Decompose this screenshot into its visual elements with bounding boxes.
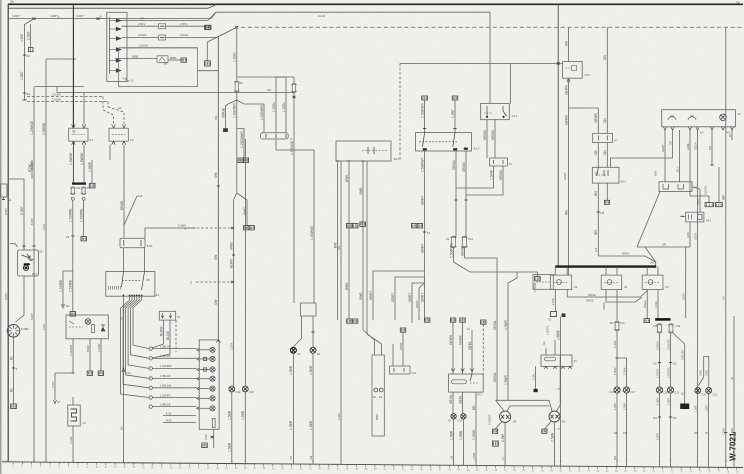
wire BWS chain <box>348 161 350 319</box>
lamp C20 <box>695 388 701 394</box>
hazard warning unit box <box>66 315 108 339</box>
wire below F11b <box>616 331 618 387</box>
wire below generator <box>13 337 15 404</box>
dashed wire S.WS <box>196 281 231 283</box>
connector top 425 <box>422 96 428 100</box>
wire 2.5SW dashed pair <box>27 96 103 98</box>
fuse 8A <box>235 81 238 92</box>
SWGE link wires <box>567 290 647 298</box>
lamp C21 <box>706 388 712 394</box>
lighting switch box S <box>106 272 155 297</box>
wire branch 59 <box>46 58 76 60</box>
relay K2 <box>109 128 128 141</box>
junction box X12 <box>390 366 411 374</box>
wire bundle 7 <box>121 296 149 397</box>
relay K5 terminals <box>646 267 648 276</box>
aux lines right <box>163 415 196 417</box>
switch box S4.2 <box>592 167 619 183</box>
dashed vertical 176 <box>175 320 177 352</box>
junction K2b <box>423 231 426 233</box>
connector 247 <box>244 226 249 230</box>
partial relay left <box>533 275 553 290</box>
wire 1.5WF stub <box>91 160 93 183</box>
3-terminal connector box <box>261 133 289 139</box>
relay terminals K2 <box>112 125 116 129</box>
terminal 537 <box>535 277 541 281</box>
wire 1.5WBL long <box>31 160 33 179</box>
cluster bottom wire <box>213 429 215 448</box>
connector pair 349 <box>346 224 352 228</box>
fuse F16 <box>669 324 673 333</box>
wire lamp C13 <box>245 139 247 386</box>
wire alternator top <box>8 179 24 250</box>
wire 1.5SWBL pair <box>72 200 74 312</box>
relay K4 <box>601 275 622 289</box>
hazard internals <box>69 326 83 328</box>
wire 456 to fuse <box>455 151 457 188</box>
wire K1 down pair <box>72 141 74 183</box>
wire 1.5RT drop K2 <box>25 19 35 100</box>
park lamps <box>374 388 378 392</box>
wire long K15 vertical <box>123 296 125 462</box>
relay K3 <box>551 275 572 289</box>
dark connector 535 <box>534 389 538 392</box>
relay box KT1 <box>449 374 484 392</box>
wire 525 GRSA <box>465 258 498 400</box>
fuse F9 <box>452 237 456 248</box>
ignition switch box <box>18 250 39 276</box>
wires circles to cluster <box>152 348 196 350</box>
feeder SR <box>637 192 660 248</box>
connector pair 415 <box>411 224 416 228</box>
resistor box R13 <box>686 212 704 222</box>
wire 476 down <box>475 392 477 462</box>
junction node A <box>235 26 238 28</box>
switch internals <box>122 280 142 282</box>
wires into relay KT1 <box>452 322 454 374</box>
node 30 top bus border <box>8 3 743 5</box>
thick bar right <box>655 318 670 321</box>
wire 508 down to beam bus <box>508 272 517 400</box>
fuse F11b <box>616 316 618 321</box>
connector block K7-6 <box>120 238 145 248</box>
relay pair box x2 <box>659 182 692 192</box>
bottom ruler line <box>2 462 743 468</box>
branch diagonal 247 <box>237 193 247 225</box>
lamp C18 <box>656 387 662 393</box>
wire 80BL <box>115 58 157 60</box>
wire SWB 363 <box>362 161 364 330</box>
wire 1.5GN taps top <box>237 76 294 78</box>
scan noise texture <box>0 0 1 1</box>
cluster inline marks <box>204 357 207 360</box>
wire BL into x2 <box>679 130 681 182</box>
headlamp right E5 <box>549 400 552 411</box>
fuse 8A second <box>292 84 295 93</box>
lamp C17 <box>623 387 629 393</box>
wire K1 coil feed <box>83 93 85 125</box>
wire 1.5RT <box>454 100 456 133</box>
wire 80BL right <box>168 59 181 61</box>
relay terminals K1 <box>72 125 76 129</box>
corner mark J2 <box>127 78 130 81</box>
wires below right beam <box>545 421 552 429</box>
terminal 80BL <box>181 58 187 62</box>
cluster resistor <box>212 419 215 428</box>
connector top 403 <box>400 328 405 332</box>
left border wire <box>7 4 9 462</box>
switch terminals bottom <box>123 295 143 297</box>
resistor dark <box>680 404 689 410</box>
junction ticks on 218 <box>217 185 220 187</box>
connector X6 <box>81 237 86 241</box>
wire lamp C10 <box>233 385 235 387</box>
wire GN tap <box>198 70 219 72</box>
wires below switch <box>424 151 426 277</box>
ruler ticks <box>13 462 737 470</box>
wire to flasher <box>55 372 73 374</box>
feeder WSR1 <box>598 256 655 267</box>
connector hazard 101 <box>98 371 103 375</box>
wire 1.5WS right <box>145 228 196 238</box>
wires from X1 box top <box>545 348 547 355</box>
lamp C16 <box>614 387 620 393</box>
connector 32 <box>29 48 34 52</box>
connector 58 <box>205 61 211 66</box>
connector bottom cluster <box>202 443 207 448</box>
wire below flasher <box>72 426 74 462</box>
inline connector 2.5GN <box>159 35 166 40</box>
wire to park lamp box <box>363 330 375 355</box>
wire below fuse <box>236 92 238 100</box>
wire SW vertical to cluster <box>217 37 219 341</box>
fan GRRT <box>373 271 425 320</box>
wire 4.0RT feed <box>8 18 107 20</box>
wire 2.5SWGE label <box>109 145 111 160</box>
ruler numbers <box>12 466 739 474</box>
switch hatch contacts <box>109 286 121 290</box>
wire BRGE into K76 <box>123 237 125 239</box>
fuse arrows in box <box>110 19 122 23</box>
wire 1.5GN pair up <box>275 77 277 133</box>
wire into ignition <box>32 245 35 247</box>
instrument cluster box <box>199 340 219 429</box>
connector row tops <box>425 318 430 322</box>
wire bus line 2 <box>8 5 216 9</box>
connector GB <box>89 183 95 188</box>
wire right 726 <box>725 27 727 462</box>
connector below S42 <box>604 200 609 204</box>
warning lamp bar <box>662 110 736 127</box>
wire thick 73 from top <box>72 5 74 129</box>
wires below K3 <box>554 290 556 313</box>
dashed 484 <box>482 324 484 374</box>
fuse box A <box>107 12 127 81</box>
connector box K7 <box>593 133 613 142</box>
bar terminals <box>663 127 666 130</box>
generator G <box>7 325 20 338</box>
connector hazard 90 <box>87 371 92 375</box>
bar bulb symbols <box>668 117 676 120</box>
junction X1 <box>33 17 36 19</box>
wires below S4.2 <box>597 183 599 256</box>
headlamp left E4 <box>496 400 505 411</box>
wires below hazard box <box>72 339 74 373</box>
wire left of R13 <box>682 215 686 217</box>
diagonal to junction a <box>207 27 236 42</box>
wire fuse feeds <box>455 188 457 237</box>
wire stubs to ruler <box>34 460 734 467</box>
wire GR 568 <box>568 27 570 61</box>
wire RTWS down <box>402 332 404 366</box>
bus W1 thick <box>555 265 656 267</box>
relay box S4.1 <box>481 104 510 120</box>
scan page edge <box>0 0 2 474</box>
relay box top right of beams <box>541 355 572 367</box>
fuse F10 <box>463 237 467 248</box>
instrument feed circles <box>149 347 152 350</box>
cluster lamps <box>210 347 215 352</box>
wire lamp A <box>294 316 302 347</box>
flasher relay box <box>68 405 80 426</box>
lamp C19 <box>667 387 673 393</box>
branch to K7 box <box>569 107 599 109</box>
wire bar RT down <box>731 130 733 140</box>
fuse F15 <box>658 324 662 333</box>
junction K2 <box>23 54 26 56</box>
connector top 455 <box>452 96 458 100</box>
inline connector 2.5V1 <box>159 24 166 29</box>
loop lamps C20 C21 <box>704 357 709 388</box>
ground E2 <box>61 305 65 308</box>
connector pair 349b <box>347 319 352 323</box>
wire 1.25WGE labels <box>33 87 35 463</box>
fuse bar thick <box>72 182 86 184</box>
wire 685 down <box>685 247 687 318</box>
wires below fuses <box>454 248 518 273</box>
wires below K7 <box>597 143 599 168</box>
wire jog 244 <box>237 129 244 158</box>
wire KL30 <box>7 18 9 20</box>
ignition internals <box>22 254 34 260</box>
ground E3 <box>23 92 26 94</box>
wire 233 down <box>234 193 237 200</box>
wires below K4 <box>616 290 618 317</box>
wire 2.5GN <box>122 36 159 38</box>
wire long 86.5 <box>35 86 84 88</box>
wire GR from fuse box <box>122 20 209 22</box>
box V5b <box>563 62 583 79</box>
relay K1 <box>69 128 88 141</box>
wire 341 plain <box>340 161 342 462</box>
relay K4 terminals <box>605 267 607 276</box>
wire 2.5SW to rail <box>122 47 198 49</box>
wire 560 long <box>560 317 562 462</box>
branch to C17 <box>617 358 627 387</box>
wire 1.5GN <box>236 27 238 80</box>
wire lamp B <box>312 316 314 347</box>
wires below K5 <box>646 290 648 319</box>
wire 46 long <box>45 59 47 462</box>
wire branch 63 <box>63 271 73 305</box>
wire below F16 <box>670 333 672 387</box>
cluster arrow top <box>216 341 221 343</box>
wire GN long horizontal <box>57 92 294 94</box>
wire into flasher <box>72 400 74 405</box>
connector E <box>644 319 650 323</box>
fuse F12 <box>82 187 85 195</box>
relay K3 terminals <box>554 267 556 276</box>
connector pair 244 <box>238 158 243 163</box>
wire 558 long vertical <box>557 5 559 267</box>
wire 2.5LV <box>122 25 159 27</box>
ground E1 <box>2 199 5 201</box>
dashed wire G <box>188 227 231 229</box>
wire BW <box>337 161 339 320</box>
dashed wire KL15 <box>241 26 743 28</box>
wires below S41 <box>486 120 488 158</box>
wire 1.5GNGE vertical <box>293 93 295 303</box>
wire 2.5RT stub <box>30 24 32 47</box>
terminal vees <box>451 369 454 372</box>
fuse F11 <box>71 187 74 195</box>
junction K2 X6 <box>71 235 74 237</box>
diagonal branch K15 <box>124 196 137 225</box>
connector below generator <box>11 404 17 409</box>
headlamp switch box S5.2 <box>416 133 472 151</box>
connector pair right <box>705 203 713 207</box>
radio frame box <box>119 48 198 87</box>
wire stem connector <box>206 42 208 61</box>
combination switch box S5.1 <box>336 141 391 161</box>
flasher feed box <box>159 311 175 320</box>
connector below 73 <box>70 312 76 317</box>
wire 466 to fuse2 <box>465 151 467 195</box>
connector pair 363 <box>360 222 366 226</box>
wire below R13 <box>689 222 691 247</box>
terminal connector 79 <box>206 25 212 29</box>
fuse box internal bus <box>109 17 111 74</box>
bar wires down <box>664 130 666 182</box>
connector box K7b <box>490 158 508 166</box>
wires below left beam <box>495 422 502 430</box>
relay SB <box>157 56 168 63</box>
wires below K7b <box>456 166 494 188</box>
wires below relay KT1 <box>452 392 454 413</box>
beam bus wires <box>496 399 550 401</box>
wire ignition down to generator <box>16 276 25 322</box>
wire below V5b <box>568 78 570 275</box>
small box node 301 <box>301 303 317 316</box>
junction on 233 <box>232 254 235 256</box>
relay K5 <box>642 275 663 289</box>
terminal circles under fuses <box>71 197 74 200</box>
wire flasher down <box>152 320 164 348</box>
wire DRV1 from x2 <box>692 187 700 212</box>
diagonal 2.5GN to junction <box>218 27 236 36</box>
wire S41 top2 <box>510 63 512 104</box>
wire 1.5GRWS <box>424 100 426 133</box>
fork node <box>226 100 237 129</box>
wire y64 into V5b <box>400 62 563 64</box>
terminals S5.1 <box>336 160 339 162</box>
dashed vertical 400 <box>399 63 401 148</box>
wire GN from dashed <box>606 27 608 133</box>
wire below F15 <box>659 333 661 387</box>
bar lamp circ <box>720 114 727 121</box>
wire GR right <box>733 316 735 462</box>
terminal S1 <box>224 129 228 132</box>
wire GEBR diag <box>673 333 685 404</box>
voltage regulator box <box>1 184 7 197</box>
dashed K2 feeds <box>102 97 104 111</box>
connector X at 207 <box>205 25 211 29</box>
park lamp box <box>372 355 384 436</box>
wire down from connector <box>276 139 314 303</box>
wire K76 down <box>123 248 125 272</box>
wire 412 419 down ends <box>411 320 413 323</box>
